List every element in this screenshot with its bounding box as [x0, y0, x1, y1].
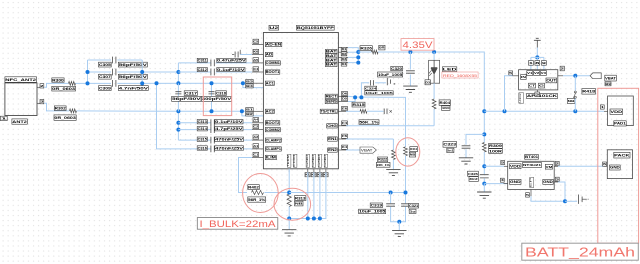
pin number 1 of U3 top [529, 61, 534, 66]
svg-text:C2: C2 [253, 125, 258, 129]
wire COMM1 net from trunk [178, 62, 211, 64]
junction BAT bus pin3 [356, 55, 360, 59]
value NB of R313 [295, 201, 305, 206]
wire BAT to R326 [358, 51, 371, 53]
pin name VDD1 of U3 [527, 71, 533, 76]
wire ILIM down [239, 158, 253, 193]
svg-text:ANT2: ANT2 [12, 120, 27, 124]
value 56pF/50V of C307 [118, 74, 148, 79]
wire EN1 net [346, 138, 393, 140]
svg-text:56pF/50V: 56pF/50V [119, 75, 148, 79]
wire row C315 [178, 139, 211, 141]
capacitor C404 [578, 195, 582, 204]
svg-text:RECT: RECT [326, 95, 337, 99]
svg-text:A5: A5 [253, 58, 258, 62]
svg-text:10uF_1005: 10uF_1005 [359, 210, 385, 214]
pin stub U401 gnd left [504, 183, 508, 185]
junction rail C323 branch [482, 132, 486, 136]
wire C319 C321 bottoms [391, 207, 406, 222]
svg-text:TERM: TERM [286, 154, 290, 167]
svg-text:470nF/25V: 470nF/25V [215, 146, 244, 150]
wire trunk vertical upper [177, 63, 179, 83]
value 22K_1% of R322 [376, 162, 390, 167]
wire C316 to pin [216, 148, 252, 150]
pin stub BOOT1 of U2 [252, 71, 263, 73]
capacitor C322 [384, 109, 387, 115]
pin name VDD of PAD1 [610, 109, 623, 114]
svg-text:EN1: EN1 [328, 137, 337, 141]
wire U3 top pin 9 [543, 57, 545, 69]
label C319 [370, 203, 382, 208]
pin name COMM1 of U2 [265, 61, 280, 65]
value 56K_1% of R315 [359, 120, 380, 125]
junction trunk at COMM1 row [176, 70, 180, 74]
pin number D2 of BAT2 [341, 52, 347, 56]
junction VBATT node [573, 74, 577, 78]
svg-text:OUT: OUT [546, 79, 556, 83]
junction gnd rail b [312, 217, 316, 221]
svg-text:D6: D6 [342, 92, 348, 96]
pin number F6 of EN1 [342, 134, 348, 138]
value 470nF/25V of C315 [215, 137, 244, 141]
pin 2 stub of ANT2 [37, 86, 44, 88]
pin number 3 [40, 100, 44, 104]
ground below rail [477, 192, 491, 198]
junction RECT jog b [359, 95, 363, 99]
svg-text:A2: A2 [253, 135, 258, 139]
svg-text:D5: D5 [342, 97, 348, 101]
value 5n1 of C323 [447, 148, 454, 152]
wire gnd node to C404 [565, 200, 577, 202]
pin name EP of U401 [529, 177, 534, 187]
junction AC2 at C318 [210, 109, 214, 113]
svg-text:BATT_24mAh: BATT_24mAh [525, 246, 635, 260]
wire battery plus net [484, 110, 604, 112]
label ANT2 [12, 119, 27, 124]
svg-text:0.1uF/10V: 0.1uF/10V [215, 120, 244, 124]
ground below C320 [403, 86, 417, 92]
wire LED top lead [433, 52, 435, 67]
wire 4.35V rail [378, 52, 484, 143]
pin name AC1 of U2 [265, 81, 274, 85]
svg-text:D1: D1 [342, 47, 347, 51]
pin name CLAMP2 of U2 [265, 138, 281, 142]
junction TS net C321 [404, 191, 408, 195]
resistor R326 [372, 50, 379, 54]
svg-text:IN: IN [521, 75, 526, 79]
svg-text:R322: R322 [378, 158, 387, 162]
pin stub PACK [604, 165, 607, 167]
wire TS to R315 [346, 110, 360, 112]
wire ANT2 pin2 to R300 [44, 83, 69, 87]
svg-text:F4: F4 [342, 121, 348, 125]
wire AC1 pin pair jog [243, 83, 264, 87]
no-connect dot C404 [587, 198, 589, 201]
wire gnd stem [288, 219, 290, 230]
capacitor C310 [235, 52, 238, 58]
capacitor C311 [211, 60, 214, 67]
value 1K0 of R404 [442, 106, 451, 110]
wire C313 to pin [216, 122, 252, 124]
red annotation circle around R411 [396, 138, 420, 166]
pin stub bottom x320 of U2 [319, 169, 321, 172]
wire C312 to BOOT1 pin [216, 71, 252, 73]
pin name AD-EN of U2 [265, 42, 282, 46]
svg-text:D3: D3 [342, 57, 347, 61]
no-connect x at C322 b [390, 110, 392, 112]
pin number K2 bottom of U2 [311, 173, 316, 177]
wire EN2 to label [346, 149, 360, 151]
value NB of R418 [567, 98, 575, 103]
svg-text:C1: C1 [253, 152, 258, 156]
pin stub U401 vdd [504, 165, 508, 167]
label C311 [197, 58, 207, 62]
value 10uF_1005 of C319 [359, 209, 386, 213]
pin name GND bottom of U2 [311, 154, 316, 167]
junction bat net U3 [503, 109, 507, 113]
svg-text:ILIM: ILIM [266, 156, 277, 160]
red annotation label BATT_24mAh [522, 243, 639, 260]
svg-text:C5: C5 [253, 39, 258, 43]
pin number K5 bottom of U2 [323, 173, 328, 177]
global label VBATT arrow [590, 73, 601, 79]
pin name VDD3 of U3 [540, 71, 546, 76]
pin stub BAT3 of U2 [338, 56, 348, 58]
svg-text:C314: C314 [198, 127, 207, 131]
value 10uF_1005 of C320 [378, 72, 403, 77]
pin number A2 of CLAMP2 [253, 135, 259, 139]
pin stub BAT2 of U2 [338, 51, 348, 53]
wire C317 vertical [177, 83, 179, 111]
wire C323 bottom [465, 149, 467, 157]
pin name BAT1 of U2 [326, 49, 338, 53]
red annotation label 4.35V [401, 39, 434, 51]
pin name BAT3 of U2 [326, 58, 338, 62]
svg-text:0.47uF/25V: 0.47uF/25V [217, 59, 246, 63]
wire rail gnd stem [483, 184, 485, 192]
pin name GND bottom of U2 [323, 154, 328, 167]
label C318 [216, 91, 227, 96]
svg-text:AC2: AC2 [266, 110, 274, 114]
svg-text:BT401: BT401 [525, 155, 538, 159]
pin stub U401 vm [554, 165, 558, 167]
label B9 near VBATT [605, 82, 611, 86]
resistor R313 [287, 194, 291, 206]
LED D301 [429, 60, 440, 83]
capacitor C404 stub [582, 198, 587, 200]
pin name GND right of U401 [543, 179, 554, 184]
wire rail gnd branch [484, 183, 507, 185]
IC U3 body [519, 70, 558, 90]
junction BAT bus pin2 [356, 50, 360, 54]
label R313 [295, 196, 306, 201]
label R326 [360, 46, 372, 51]
svg-text:F6: F6 [342, 134, 348, 138]
wire trunk vertical lower [177, 111, 179, 140]
connector PAD1 body [608, 96, 634, 126]
wire R322 bottom lead [392, 160, 394, 170]
value 56pF/50V of C317 [172, 96, 202, 101]
wire TS net long [289, 192, 405, 194]
pin name BAT4 of U2 [326, 62, 338, 66]
label C316 [197, 146, 207, 150]
label C305 [99, 62, 112, 67]
wire R315 to C322 [367, 110, 384, 112]
capacitor C325 with no-connect [387, 78, 390, 85]
junction RECT jog a [353, 95, 357, 99]
svg-text:FOD: FOD [292, 155, 296, 167]
junction TS net C319 [389, 191, 393, 195]
label R402 [248, 185, 259, 190]
svg-text:GND: GND [610, 166, 621, 170]
net label NFC_ANT2 [5, 77, 37, 83]
svg-text:C311: C311 [198, 59, 207, 63]
pin name SENS right of U2 [325, 99, 338, 103]
pin number E6 of TS/CTRL [342, 106, 348, 110]
svg-text:30nF: 30nF [469, 177, 478, 181]
wire BOOT1 row [178, 71, 211, 73]
label C326 [468, 171, 479, 176]
junction rail U401 VDD [482, 164, 486, 168]
svg-text:BOOT1: BOOT1 [266, 70, 280, 74]
value 300pF/50V of C318 [201, 96, 232, 101]
svg-text:A1: A1 [253, 144, 258, 148]
label R418 [582, 89, 596, 95]
pin 1 stub label [0, 116, 8, 120]
value NB of R411 [409, 152, 416, 157]
pin stub bottom x308 of U2 [307, 169, 309, 172]
wire U3 vdd bus [531, 56, 544, 58]
svg-text:I_BULK=22mA: I_BULK=22mA [200, 219, 277, 229]
pin name VDD of U401 [510, 164, 522, 169]
value 56R_1% of R402 [248, 197, 267, 202]
value 0.1uF/10V of C313 [215, 120, 244, 124]
no-connect x at C322 [390, 110, 392, 112]
junction gnd rail c [318, 217, 322, 221]
svg-text:R302: R302 [55, 106, 66, 110]
pin stub COMM2 of U2 [252, 129, 263, 131]
svg-text:VBAT: VBAT [605, 76, 616, 80]
pin stub AD-EN of U2 [252, 43, 263, 45]
resistor R402 [252, 190, 264, 194]
svg-text:C4: C4 [253, 67, 258, 71]
capacitor C312 [211, 69, 214, 76]
label C324 [365, 86, 377, 90]
pin number C1 of ILIM [253, 152, 259, 156]
wire rail below R309 [483, 152, 485, 174]
pin name OUT of U3 [546, 78, 557, 83]
junction rail at C320 [408, 50, 412, 54]
wire SENS jog [348, 97, 355, 101]
pin stub U401 ep [530, 190, 532, 197]
svg-text:D3: D3 [425, 80, 430, 84]
pin number C5 of AD-EN [253, 39, 259, 43]
red annotation label I_BULK=22mA [197, 218, 277, 230]
wire CHG net [346, 125, 434, 127]
label PACK [614, 152, 631, 158]
capacitor C323 [462, 146, 471, 148]
svg-text:4.35V: 4.35V [403, 40, 434, 50]
wire U401 vm to PACK [558, 165, 604, 167]
wire U3 left pin to bat net [505, 76, 513, 112]
svg-text:GND: GND [510, 180, 522, 184]
value 470nF/25V of C316 [215, 146, 244, 150]
red annotation circle around R313 [274, 188, 311, 220]
wire TERM pin down [288, 169, 290, 194]
capacitor C309 [113, 80, 116, 87]
svg-text:U2: U2 [269, 26, 278, 30]
svg-text:B1: B1 [246, 108, 253, 112]
svg-text:RED_1608X55: RED_1608X55 [443, 74, 477, 78]
pin name EN1 right of U2 [328, 137, 338, 141]
svg-text:0R_0603: 0R_0603 [54, 116, 75, 120]
junction C319 C321 gnd [397, 220, 401, 224]
svg-text:1u: 1u [410, 209, 416, 213]
svg-text:56R_1%: 56R_1% [248, 198, 266, 202]
wire row C307 right [117, 71, 178, 73]
label PAD1 [614, 121, 626, 126]
svg-text:470nF/25V: 470nF/25V [215, 137, 244, 141]
svg-text:R309: R309 [489, 144, 502, 148]
pin stub U401 gnd right [554, 181, 558, 183]
junction C305 vertical at row2 [140, 70, 144, 74]
wire C310 to AD pin [240, 54, 252, 56]
capacitor C326 in rail [480, 175, 489, 178]
red annotation box around C317 C318 [203, 77, 231, 116]
jumper R418 pads [574, 91, 576, 93]
wire R313 to gnd rail [288, 207, 290, 219]
value 0R_0603 of R302 [54, 115, 76, 120]
svg-text:PAD1: PAD1 [614, 122, 626, 126]
svg-text:SENS: SENS [326, 100, 338, 104]
pin number B1 of AC2 [246, 108, 254, 112]
svg-text:EN2: EN2 [328, 148, 337, 152]
wire C319 top lead [390, 193, 392, 204]
capacitor C320 [406, 71, 415, 73]
junction trunk at AC2 [176, 109, 180, 113]
pin name GND bottom of U2 [305, 154, 310, 167]
capacitor C319 [386, 204, 395, 206]
value 4.7nF/50V of C309 [118, 86, 149, 91]
junction trunk row C313 [176, 121, 180, 125]
label C307 [99, 74, 112, 79]
pin stub BAT1 of U2 [338, 47, 348, 49]
junction rail at LED D301 [432, 50, 436, 54]
svg-text:56pF/50V: 56pF/50V [119, 63, 148, 67]
resistor R302 [70, 109, 77, 113]
svg-text:NFC_ANT2: NFC_ANT2 [5, 78, 36, 82]
pin stub AD of U2 [252, 54, 263, 56]
svg-text:TS/CTRL: TS/CTRL [321, 110, 337, 114]
pin name FOD bottom of U2 [292, 154, 297, 167]
svg-text:NT3H21: NT3H21 [523, 163, 542, 167]
label C309 [99, 86, 112, 91]
svg-text:C319: C319 [371, 204, 383, 208]
svg-text:A4: A4 [253, 118, 258, 122]
junction node C307-R300 bank 1 [86, 70, 90, 74]
pin name BOOT1 of U2 [265, 70, 280, 74]
label C312 [197, 68, 207, 72]
pin number 3 of U401 [555, 177, 559, 181]
pin number 3 of U3 bottom [535, 92, 540, 97]
svg-text:VBAT: VBAT [361, 148, 373, 152]
svg-text:VM: VM [546, 165, 553, 169]
svg-text:100R: 100R [489, 149, 503, 153]
wire ANT2 pin3 to R302 [44, 103, 70, 111]
power flag 4V35 [534, 38, 541, 47]
svg-text:AD: AD [266, 53, 274, 57]
junction gnd rail at R313 [287, 217, 291, 221]
junction node R402 R313 [287, 191, 291, 195]
wire C318 vertical [211, 83, 213, 111]
wire U3 top pin 1 [530, 57, 532, 69]
pin stub U3 right [558, 75, 563, 77]
pin number D1 of BAT1 [341, 47, 347, 51]
value 0R_0603 of R300 [52, 86, 76, 91]
label R300 [52, 78, 64, 82]
pin name COMM2 of U2 [265, 128, 280, 132]
svg-text:V3: V3 [541, 71, 547, 75]
wire C311 to COMM1 pin [216, 62, 252, 64]
wire vertical AC1 to C316 [157, 83, 212, 149]
capacitor C321 [401, 204, 410, 206]
svg-text:R300: R300 [52, 78, 64, 82]
pin number 6 of PACK [603, 162, 607, 166]
wire vertical C305 to AC1 [141, 60, 143, 83]
junction AC1 at x156 [155, 81, 159, 85]
wire RECT net lower [405, 156, 407, 203]
pin number C2 of COMM2 [253, 124, 259, 128]
label R411 [410, 147, 418, 152]
svg-text:V2: V2 [534, 71, 540, 75]
capacitor C313 [211, 119, 214, 126]
svg-text:COMM2: COMM2 [266, 128, 280, 132]
junction trunk row C314 [176, 128, 180, 132]
wire U401 gnd right down [558, 182, 565, 201]
svg-text:R404: R404 [440, 101, 451, 105]
net name VBAT [605, 75, 617, 81]
pin stub AC1 of U2 [252, 82, 263, 84]
part NT3H2111 of U401 [523, 163, 542, 168]
wire AC2 net R302 to IC [77, 110, 253, 112]
pin number B4 of AC1 [246, 84, 254, 88]
value 30nF of C326 [469, 177, 478, 182]
pin number K1 bottom of U2 [305, 173, 310, 177]
value 4.7pF/25V of C314 [215, 127, 244, 131]
pin name BOOT2 of U2 [265, 121, 280, 125]
ground mid bottom [392, 230, 406, 236]
pin stub CLAMP2 of U2 [252, 139, 263, 141]
svg-text:K4: K4 [342, 145, 348, 149]
junction AC2 pin pair [240, 109, 244, 113]
svg-text:C326: C326 [468, 172, 478, 176]
svg-text:R315: R315 [352, 103, 364, 107]
pin stub COMM1 of U2 [252, 62, 263, 64]
svg-text:K6: K6 [253, 49, 258, 53]
svg-text:C317: C317 [185, 91, 197, 95]
pin number 5 of U401 ep [526, 193, 530, 197]
svg-text:G: G [539, 84, 544, 88]
pin name VM of U401 [545, 164, 553, 169]
pin number A1 of CLAMP1 [253, 144, 259, 148]
pin name CHG right of U2 [327, 124, 338, 128]
wire row C314 [178, 129, 211, 131]
svg-text:56pF/50V: 56pF/50V [172, 97, 202, 101]
label R404 [439, 100, 450, 105]
capacitor C316 [211, 146, 214, 153]
svg-text:VDD: VDD [510, 164, 522, 168]
svg-text:CHG: CHG [327, 124, 337, 128]
